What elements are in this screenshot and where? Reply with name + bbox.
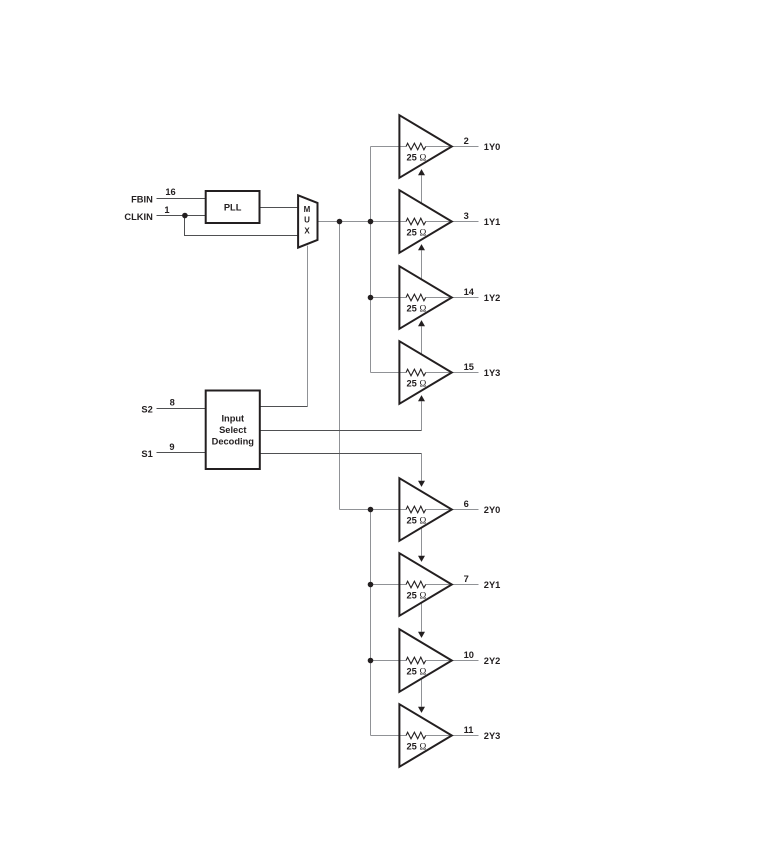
svg-text:2Y3: 2Y3 (484, 731, 501, 741)
svg-text:25 Ω: 25 Ω (407, 591, 427, 601)
svg-text:S2: S2 (141, 404, 152, 414)
svg-text:3: 3 (464, 211, 469, 221)
svg-text:11: 11 (464, 725, 474, 735)
svg-text:8: 8 (170, 398, 175, 408)
svg-text:1Y2: 1Y2 (484, 293, 501, 303)
svg-text:10: 10 (464, 650, 474, 660)
svg-text:25 Ω: 25 Ω (407, 379, 427, 389)
svg-text:CLKIN: CLKIN (124, 212, 153, 222)
svg-text:X: X (304, 226, 310, 235)
svg-text:2: 2 (464, 136, 469, 146)
svg-text:25 Ω: 25 Ω (407, 742, 427, 752)
svg-text:16: 16 (165, 187, 175, 197)
svg-text:2Y2: 2Y2 (484, 656, 501, 666)
svg-text:M: M (304, 205, 311, 214)
svg-text:25 Ω: 25 Ω (407, 153, 427, 163)
svg-text:1Y3: 1Y3 (484, 368, 501, 378)
svg-text:Select: Select (219, 425, 246, 435)
svg-text:25 Ω: 25 Ω (407, 667, 427, 677)
svg-text:2Y1: 2Y1 (484, 580, 501, 590)
svg-text:25 Ω: 25 Ω (407, 228, 427, 238)
svg-text:9: 9 (169, 442, 174, 452)
svg-text:6: 6 (464, 499, 469, 509)
svg-text:15: 15 (464, 362, 474, 372)
svg-text:FBIN: FBIN (131, 195, 153, 205)
svg-text:2Y0: 2Y0 (484, 505, 501, 515)
svg-text:U: U (304, 216, 310, 225)
svg-text:1: 1 (164, 205, 169, 215)
svg-text:Decoding: Decoding (212, 436, 255, 446)
svg-text:S1: S1 (141, 449, 152, 459)
svg-text:1Y0: 1Y0 (484, 142, 501, 152)
svg-text:7: 7 (464, 574, 469, 584)
svg-text:25 Ω: 25 Ω (407, 516, 427, 526)
svg-text:14: 14 (464, 287, 475, 297)
svg-text:Input: Input (221, 414, 244, 424)
svg-text:1Y1: 1Y1 (484, 217, 501, 227)
svg-text:25 Ω: 25 Ω (407, 304, 427, 314)
svg-text:PLL: PLL (224, 203, 242, 213)
